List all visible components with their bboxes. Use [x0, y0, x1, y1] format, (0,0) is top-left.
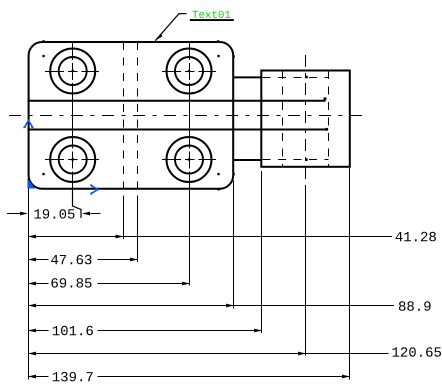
UCS icon origin corner (blue) [27, 178, 35, 188]
dimension 41.28 line [28, 236, 392, 238]
grip dot right edge top tangent [233, 55, 235, 57]
dimension text 19.05 [34, 209, 74, 219]
hidden line block left vertical [282, 71, 284, 166]
extension line block centerline [305, 185, 307, 356]
grip dot band line 1 right end [324, 97, 327, 100]
UCS icon Y arrowhead (blue) [23, 120, 33, 127]
hole top-right counterbore circle [167, 49, 212, 94]
arrow 88.9 left [28, 304, 36, 308]
grip dot bottom edge right tangent [217, 188, 219, 190]
grip dot corner TR center [217, 55, 219, 57]
grip dot hidden line top 2 [137, 41, 139, 43]
dimension text 139.7 [53, 372, 93, 382]
main horizontal centerline [9, 115, 368, 117]
dimension 69.85 line [28, 283, 190, 285]
grip dot right edge bottom tangent [233, 173, 235, 175]
hole bottom-left center crosshair horizontal [45, 159, 99, 161]
arrow 41.28 left (tip x=28) [28, 235, 36, 239]
dimension 88.9 line [28, 305, 394, 307]
hole column right vertical centerline [189, 42, 191, 190]
extension line hidden left [123, 196, 125, 240]
grip dot block centerline bottom [305, 158, 308, 161]
grip dot corner BR center [217, 173, 219, 175]
block vertical centerline [305, 55, 307, 181]
slot band top edge [29, 100, 326, 102]
leader arrowhead [155, 34, 163, 41]
grip dot block centerline top [305, 76, 308, 79]
hole column left vertical centerline [72, 42, 74, 190]
extension line hole column 2 [189, 190, 191, 286]
hole bottom-right center crosshair horizontal [162, 159, 216, 161]
arrow 120.65 right (tip x=305.8) [298, 352, 306, 356]
dimension 19.05 line [7, 213, 101, 215]
extension line block left edge [261, 171, 263, 333]
right block outline [261, 71, 350, 167]
arrow 101.6 left [28, 329, 36, 333]
extension line hole column 1 jogged [73, 190, 82, 219]
leader line Text01 [155, 14, 186, 41]
arrow 19.05 right (points left, tip at x=82) [82, 212, 90, 216]
hidden line body right [137, 42, 139, 192]
hole top-right center crosshair horizontal [162, 71, 216, 73]
dimension text 120.65 [393, 347, 442, 357]
hidden line block top horizontal [263, 77, 329, 79]
arrow 47.63 left [28, 258, 36, 262]
hole top-right bore circle [175, 57, 203, 85]
grip dot corner TL center [42, 55, 44, 57]
arrow 88.9 right (tip x=233.5) [226, 304, 234, 308]
extension line block right edge [349, 168, 351, 380]
hidden line block bottom horizontal [263, 159, 329, 161]
dimension 47.63 line [28, 259, 138, 261]
dimension text 69.85 [51, 278, 91, 288]
slot band bottom edge [29, 129, 327, 131]
arrow 139.7 right (tip x=349.8) [342, 375, 350, 379]
dimension text 88.9 [399, 301, 431, 311]
grip dot hole center TR [188, 70, 190, 72]
arrow 139.7 left [28, 375, 36, 379]
arrow 41.28 right (tip x=123) [116, 235, 124, 239]
extension line body right edge [233, 181, 235, 309]
extension line left edge [28, 178, 30, 380]
extension line hidden right [137, 196, 139, 263]
grip dot band line 2 right end [325, 128, 328, 131]
label Text01 [192, 11, 230, 18]
hole top-left counterbore circle [50, 49, 95, 94]
hole bottom-right counterbore circle [167, 137, 212, 182]
boss top connector edge [234, 76, 261, 78]
hole top-left center crosshair horizontal [45, 71, 99, 73]
UCS icon X arrowhead (blue) [91, 184, 98, 195]
grip dot band line 1 left end [27, 100, 29, 102]
grip dot band line 2 left end [27, 128, 29, 130]
arrow 120.65 left [28, 352, 36, 356]
arrow 69.85 right (tip x=189) [182, 282, 190, 286]
grip dot hole center TL [72, 70, 74, 72]
grip dot top edge right tangent [217, 40, 219, 42]
hole bottom-left bore circle [59, 146, 87, 174]
dimension text 47.63 [51, 255, 91, 264]
hidden line body left [123, 42, 125, 192]
grip dot top edge left tangent [42, 40, 44, 42]
grip dot hole center BL [72, 158, 74, 160]
dimension 139.7 line [28, 376, 350, 378]
dimension 120.65 line [28, 353, 389, 355]
arrow 69.85 left [28, 282, 36, 286]
boss bottom connector edge [234, 159, 261, 161]
part body outline [29, 42, 234, 189]
dimension 101.6 line [28, 330, 262, 332]
arrow 47.63 right (tip x=137.8) [130, 258, 138, 262]
hidden line block right vertical [328, 71, 330, 166]
grip dot corner BL center [42, 173, 44, 175]
grip dot hidden line top 1 [122, 41, 124, 43]
hole bottom-right bore circle [175, 146, 203, 174]
arrow 101.6 right (tip x=261.3) [254, 329, 262, 333]
label Text01 underline [190, 19, 234, 21]
dimension text 41.28 [396, 232, 436, 242]
dimension text 101.6 [53, 326, 93, 336]
hole bottom-left counterbore circle [50, 137, 95, 182]
grip dot hole center BR [188, 158, 190, 160]
arrow 19.05 left (points right, tip at x=28) [20, 212, 28, 216]
hole top-left bore circle [59, 57, 87, 85]
